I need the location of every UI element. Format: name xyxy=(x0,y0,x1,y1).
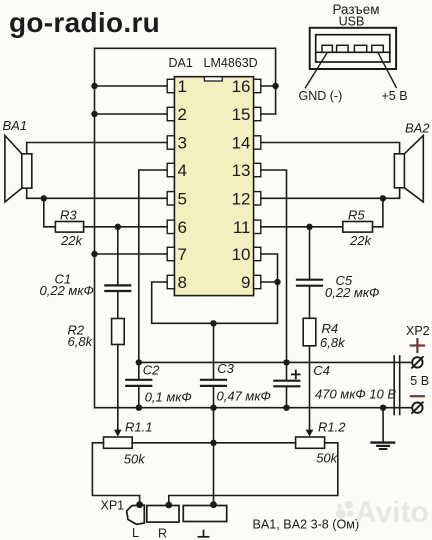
svg-text:6: 6 xyxy=(178,218,187,237)
wire pin 3 to BA1 top xyxy=(27,143,168,154)
speaker BA1 coil xyxy=(22,154,32,188)
svg-text:BA1: BA1 xyxy=(3,118,28,133)
speaker BA1 cone xyxy=(5,136,22,203)
svg-text:15: 15 xyxy=(232,105,251,124)
junction C2 top / +5V rail xyxy=(136,359,142,365)
svg-text:BA1, BA2 3-8 (Ом): BA1, BA2 3-8 (Ом) xyxy=(253,518,360,532)
svg-text:R5: R5 xyxy=(348,207,365,222)
junction BA2 bottom / R5 xyxy=(380,195,386,201)
svg-text:470 мкФ 10 В: 470 мкФ 10 В xyxy=(315,387,396,402)
USB contact pad 1 xyxy=(322,45,332,52)
IC pin 4 box xyxy=(167,163,174,176)
wire R2 to R1.1 wiper xyxy=(117,345,119,431)
svg-text:R3: R3 xyxy=(60,207,77,222)
svg-text:6,8k: 6,8k xyxy=(68,334,94,349)
speaker BA2 coil xyxy=(394,154,404,188)
wire pin 13 down to +5V rail and C4 xyxy=(261,170,287,381)
potentiometer R1.1 xyxy=(104,437,133,448)
junction ground rail / earth xyxy=(380,405,386,411)
svg-text:9: 9 xyxy=(241,273,250,292)
svg-text:C2: C2 xyxy=(143,362,160,377)
IC pin 1 box xyxy=(167,79,174,92)
junction bridge / C3 xyxy=(210,320,216,326)
junction pin 7 / left rail xyxy=(91,251,97,257)
XP2 minus mark xyxy=(411,395,424,397)
wire junction down to C5 xyxy=(309,227,311,280)
wire pin 1 xyxy=(95,85,168,87)
leader line to +5V pin xyxy=(378,53,396,87)
junction pots wire / C3 line xyxy=(210,440,216,446)
XP1 pin L plug xyxy=(127,505,145,524)
USB connector XS1 outline xyxy=(310,28,396,69)
svg-text:XP2: XP2 xyxy=(406,324,430,338)
wire pin 9 xyxy=(261,281,278,283)
wire +5V rail to XP2 plus xyxy=(139,361,413,363)
junction pin 16 / top rail xyxy=(272,83,278,89)
junction C2 / ground rail xyxy=(136,405,142,411)
wire pin 7 xyxy=(95,253,168,255)
wire pin 5 to BA1 bottom xyxy=(27,188,168,198)
svg-text:Avito: Avito xyxy=(355,496,429,529)
svg-text:XP1: XP1 xyxy=(101,499,125,513)
svg-text:16: 16 xyxy=(232,77,251,96)
USB contacts base line xyxy=(316,51,390,53)
resistor R3 xyxy=(55,222,83,233)
XP1 common contact xyxy=(183,506,226,522)
junction C3 / ground rail xyxy=(210,405,216,411)
wire bridge down to C3 xyxy=(213,323,215,379)
wire C5 to R4 xyxy=(309,286,311,319)
svg-text:+5 В: +5 В xyxy=(382,89,408,103)
XP2 connector boundary lines xyxy=(393,356,395,415)
wire pin 12 to BA2 bottom xyxy=(261,188,400,199)
junction pin 1 / left rail xyxy=(91,83,97,89)
junction XP1 L xyxy=(136,501,143,508)
wire C2 bottom to ground rail xyxy=(138,386,140,408)
wire R4 to R1.2 wiper xyxy=(309,346,311,430)
leader line to GND pin xyxy=(306,53,327,87)
svg-text:3: 3 xyxy=(178,134,187,153)
wiper arrow R1.1 xyxy=(114,430,122,437)
svg-text:2: 2 xyxy=(178,105,187,124)
wire down to R3 left xyxy=(44,198,56,227)
svg-text:50k: 50k xyxy=(316,450,338,465)
junction pin 9 / pin 10 link xyxy=(274,279,280,285)
junction pin13 drop / +5V rail xyxy=(283,359,289,365)
junction pin 11 wire / C5 xyxy=(306,224,312,230)
junction BA1 bottom / R3 xyxy=(41,195,47,201)
svg-text:L: L xyxy=(132,526,139,540)
potentiometer R1.2 xyxy=(296,437,325,448)
svg-text:5 В: 5 В xyxy=(410,374,429,388)
IC pin 16 box xyxy=(254,79,261,92)
svg-text:7: 7 xyxy=(178,245,187,264)
wire R3 right to pin 6 xyxy=(84,226,168,228)
svg-text:6,8k: 6,8k xyxy=(320,335,346,350)
svg-text:0,22 мкФ: 0,22 мкФ xyxy=(325,285,379,300)
svg-text:50k: 50k xyxy=(124,451,146,466)
capacitor C4 polarity plus xyxy=(292,371,300,379)
USB connector inner shell xyxy=(316,35,390,62)
watermark avito xyxy=(336,496,429,529)
IC pin 7 box xyxy=(167,247,174,260)
IC pin 3 box xyxy=(167,136,174,149)
resistor R2 xyxy=(112,319,125,345)
svg-text:C3: C3 xyxy=(217,361,234,376)
svg-text:11: 11 xyxy=(233,218,251,237)
resistor R5 xyxy=(343,222,373,233)
svg-text:R: R xyxy=(158,527,167,540)
svg-text:14: 14 xyxy=(232,134,251,153)
svg-text:0,47 мкФ: 0,47 мкФ xyxy=(217,389,271,404)
svg-text:GND (-): GND (-) xyxy=(299,89,343,103)
svg-text:R1.1: R1.1 xyxy=(125,420,152,435)
wire pin 16 xyxy=(261,85,276,87)
wire C4 bottom to ground rail xyxy=(286,386,288,407)
svg-text:R1.2: R1.2 xyxy=(318,419,346,434)
svg-text:C4: C4 xyxy=(313,363,330,378)
USB contact pad 3 xyxy=(354,45,366,52)
IC pin 15 box xyxy=(254,107,261,120)
USB contact pad 2 xyxy=(337,45,349,52)
svg-text:22k: 22k xyxy=(349,233,372,248)
IC notch mark xyxy=(204,77,222,81)
IC pin 5 box xyxy=(167,192,174,205)
IC pin 13 box xyxy=(254,163,261,176)
capacitor C2 xyxy=(126,380,151,386)
IC pin 10 box xyxy=(254,247,261,260)
speaker BA2 cone xyxy=(404,136,423,203)
IC pin 8 box xyxy=(167,275,174,288)
IC pin 12 box xyxy=(254,192,261,205)
XP2 plus mark xyxy=(411,339,424,352)
svg-text:USB: USB xyxy=(339,15,365,29)
wire pin 2 xyxy=(95,113,168,115)
capacitor C1 xyxy=(105,285,130,291)
label common symbol xyxy=(198,531,208,537)
capacitor C4 xyxy=(274,381,299,387)
svg-text:8: 8 xyxy=(178,273,187,292)
wire top rail to left rail to ground rail xyxy=(95,48,413,407)
capacitor C5 xyxy=(297,280,322,286)
wire R1.1 left down to XP1 L xyxy=(92,443,139,505)
svg-text:5: 5 xyxy=(178,189,187,208)
wiper arrow R1.2 xyxy=(306,430,314,437)
XP2 terminal plus xyxy=(412,357,423,368)
svg-text:0,22 мкФ: 0,22 мкФ xyxy=(40,283,94,298)
IC pin 9 box xyxy=(254,275,261,288)
IC pin 11 box xyxy=(254,220,261,233)
wire pin 4 down to C2 xyxy=(139,170,167,380)
svg-text:DA1: DA1 xyxy=(169,56,193,70)
IC pin 2 box xyxy=(167,107,174,120)
wire R1.1 right to R1.2 left xyxy=(132,442,295,444)
junction XP1 R xyxy=(165,502,172,509)
IC pin 14 box xyxy=(254,136,261,149)
XP1 pin R contact xyxy=(147,506,179,523)
wire right drop from top rail to pin 15 xyxy=(275,48,277,114)
svg-text:0,1 мкФ: 0,1 мкФ xyxy=(145,389,192,404)
wire pin 11 to R5 left xyxy=(261,226,343,228)
IC pin 6 box xyxy=(167,220,174,233)
svg-text:22k: 22k xyxy=(60,233,83,248)
junction XP1 common xyxy=(210,501,217,508)
svg-text:LM4863D: LM4863D xyxy=(204,56,258,70)
svg-text:1: 1 xyxy=(178,77,187,96)
wire C3 bottom to XP1 common xyxy=(213,386,215,505)
wire R1.2 right down to XP1 R xyxy=(169,443,338,505)
capacitor C3 xyxy=(201,380,226,386)
junction C4 / ground rail xyxy=(283,405,289,411)
junction pin 6 wire / C1 xyxy=(115,224,121,230)
wire junction down to C1 xyxy=(117,227,119,285)
svg-text:10: 10 xyxy=(232,245,251,264)
USB contact pad 4 xyxy=(372,45,384,52)
wire C1 to R2 xyxy=(117,291,119,319)
XP2 terminal minus xyxy=(412,402,423,413)
wire pin 14 to BA2 top xyxy=(261,143,400,154)
junction pin 2 / left rail xyxy=(91,111,97,117)
USB connector label xyxy=(332,2,379,29)
svg-text:13: 13 xyxy=(232,161,251,180)
wire pins 8-9 bridge xyxy=(152,254,278,323)
op-amp IC DA1 LM4863D body xyxy=(174,77,253,296)
svg-text:BA2: BA2 xyxy=(405,120,430,135)
svg-text:12: 12 xyxy=(232,189,251,208)
resistor R4 xyxy=(303,318,316,346)
ground xyxy=(372,408,395,449)
svg-text:4: 4 xyxy=(178,161,187,180)
svg-text:go-radio.ru: go-radio.ru xyxy=(9,7,160,38)
wire pin 15 xyxy=(261,113,276,115)
wire R5 right up to pin12 wire xyxy=(373,198,383,227)
